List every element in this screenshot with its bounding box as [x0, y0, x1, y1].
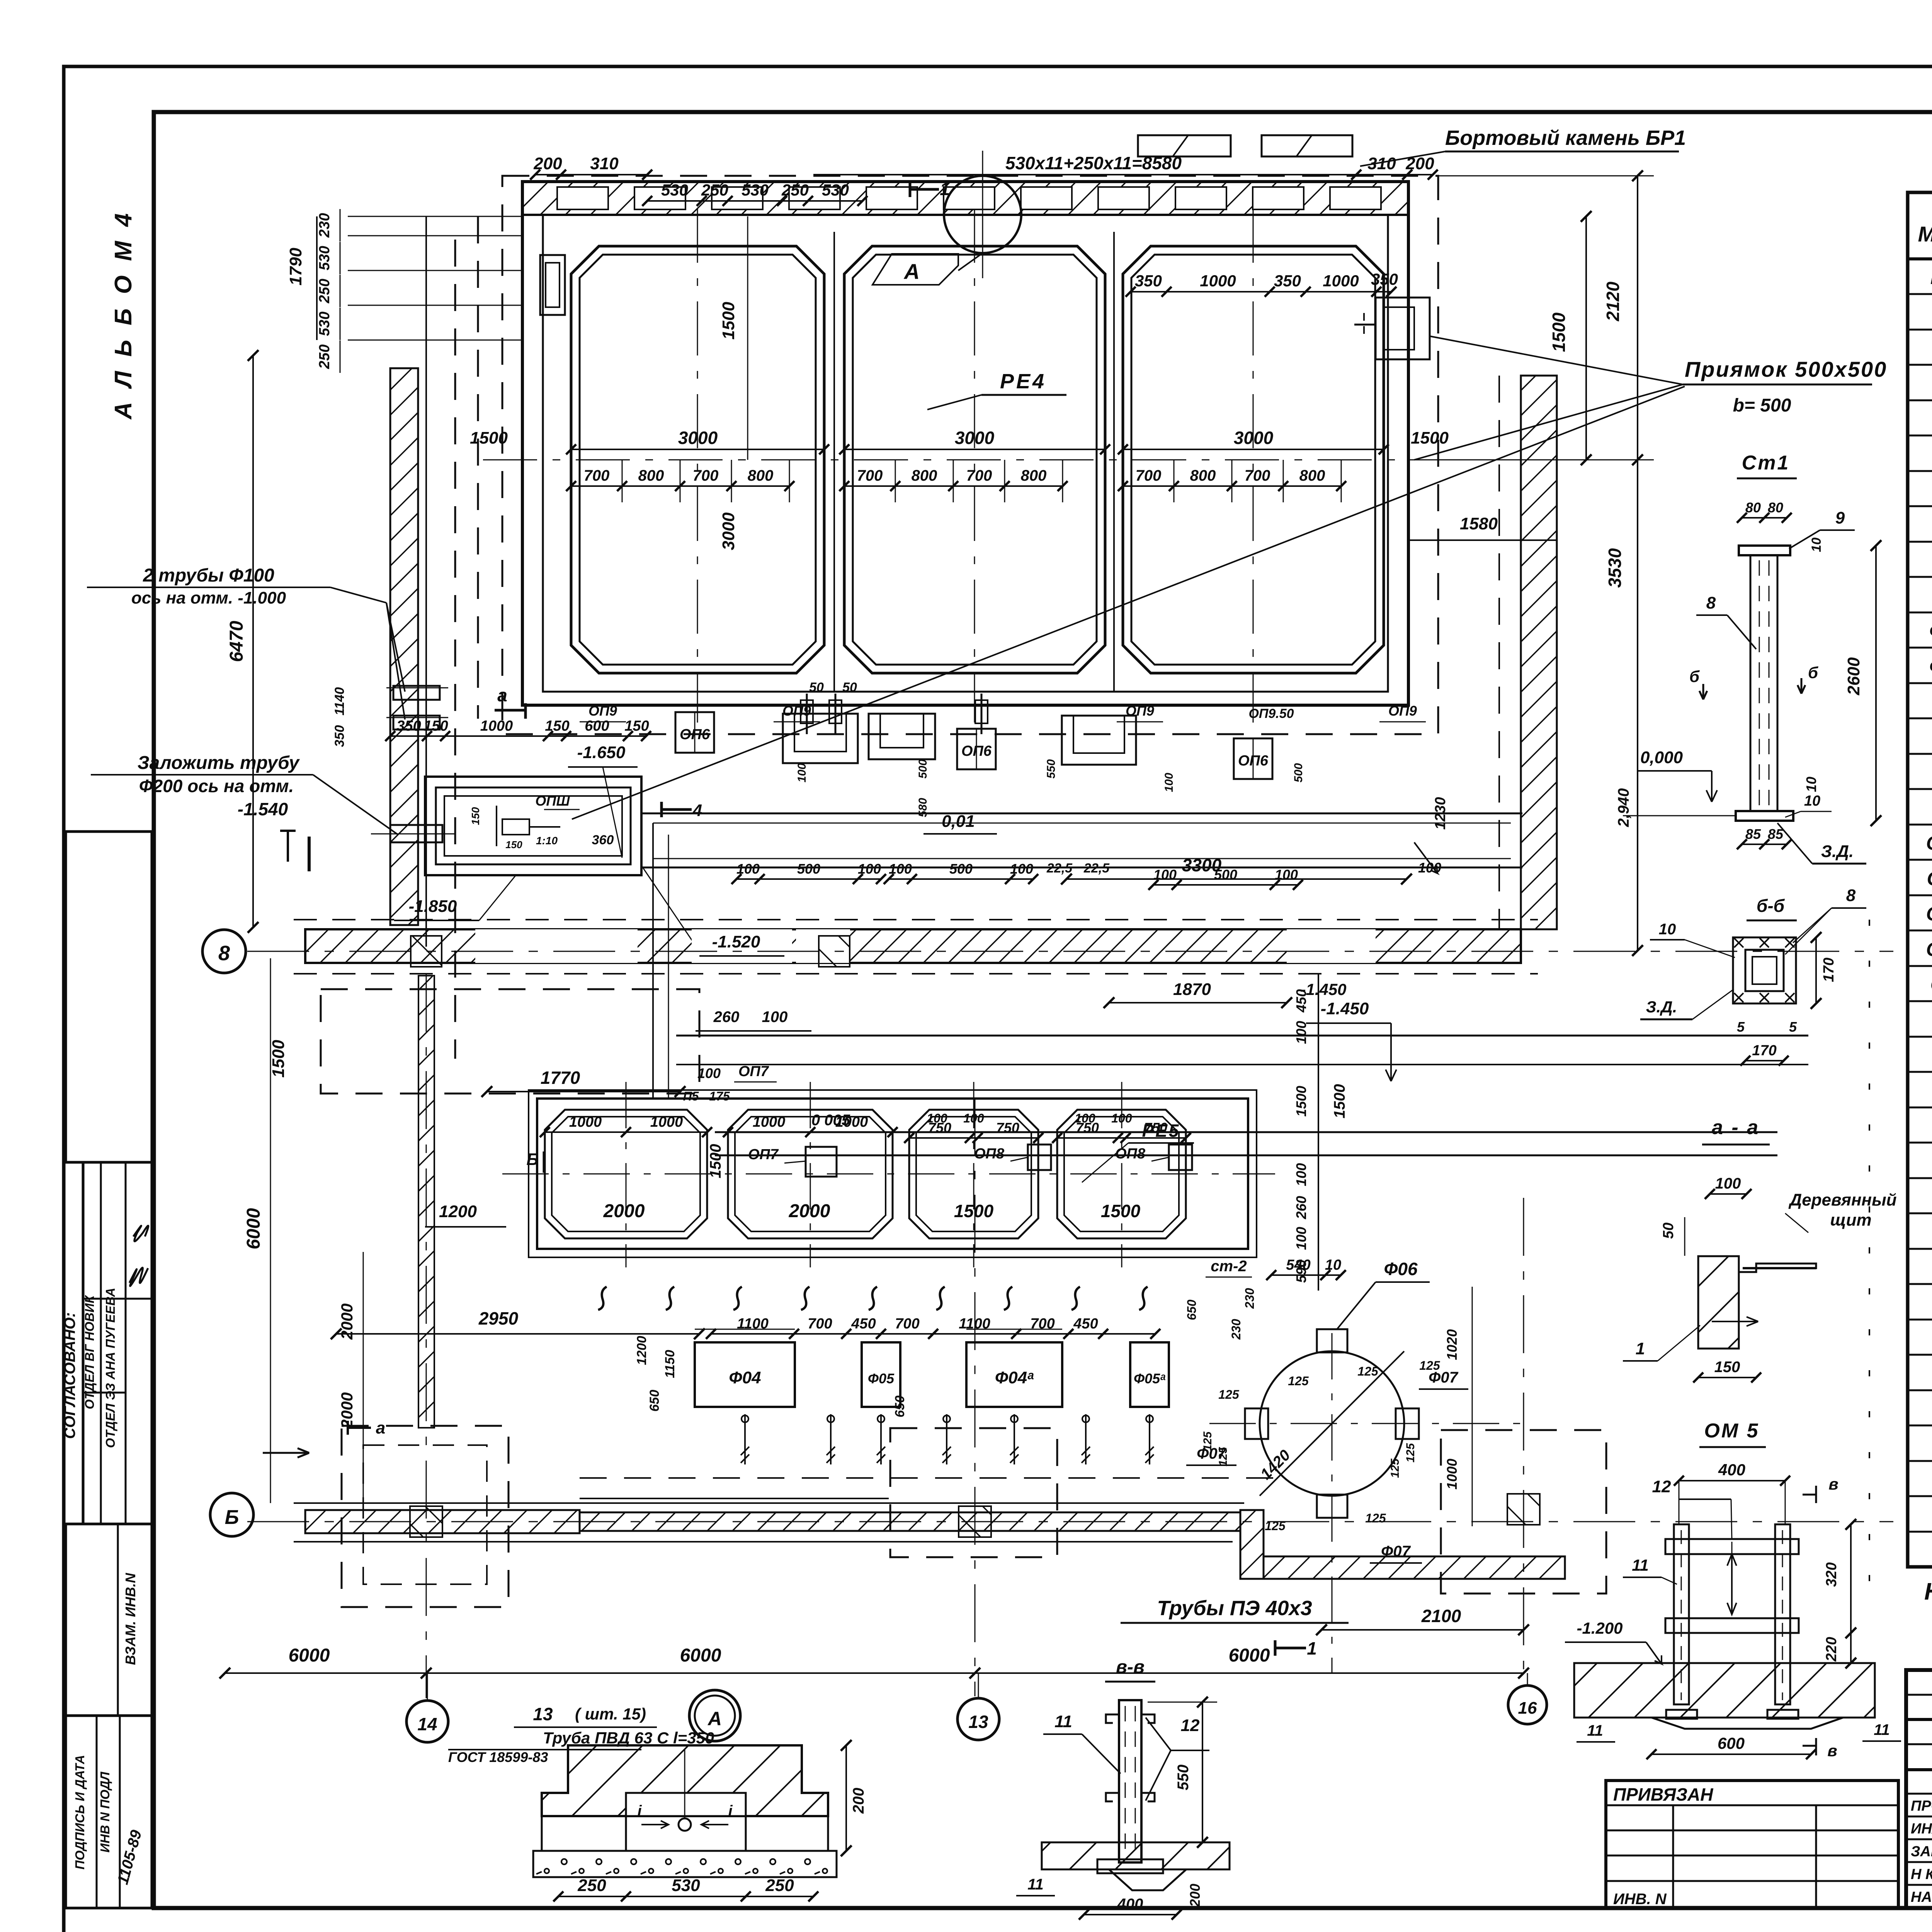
cell partition centrelines — [833, 232, 835, 692]
a-a body — [1698, 1256, 1816, 1272]
lower dim chain 2950 — [336, 1333, 699, 1335]
svg-text:ОМ 5: ОМ 5 — [1704, 1420, 1759, 1442]
svg-text:1000: 1000 — [1323, 272, 1359, 290]
post dim 550 — [1202, 1702, 1203, 1842]
svg-text:100: 100 — [736, 861, 760, 877]
svg-text:550: 550 — [1045, 759, 1058, 779]
St1 b section arrows — [1699, 684, 1707, 699]
svg-text:11: 11 — [1054, 1712, 1072, 1731]
svg-text:1500: 1500 — [719, 302, 738, 340]
svg-text:б-б: б-б — [1757, 896, 1785, 916]
svg-text:100: 100 — [1153, 867, 1177, 883]
svg-text:-1.540: -1.540 — [238, 799, 288, 819]
OM5 rack posts — [1674, 1524, 1689, 1704]
section mark a lower — [348, 1421, 371, 1435]
svg-text:ОП8: ОП8 — [974, 1146, 1005, 1162]
svg-text:150: 150 — [469, 807, 481, 825]
svg-text:1000: 1000 — [1200, 272, 1236, 290]
St1 dims 80 80 — [1742, 517, 1787, 519]
svg-text:1500: 1500 — [1293, 1086, 1309, 1117]
svg-text:ИНЖ IК: ИНЖ IК — [1911, 1821, 1932, 1837]
svg-text:Ф04ᵃ: Ф04ᵃ — [1929, 620, 1932, 642]
axis circle 13 — [957, 1698, 999, 1740]
svg-text:ОТДЕЛ ЭЗ АНА ПУГЕЕВА: ОТДЕЛ ЭЗ АНА ПУГЕЕВА — [103, 1288, 117, 1448]
svg-text:ПРИВЯЗАН: ПРИВЯЗАН — [1613, 1784, 1713, 1804]
channel from pit to right — [641, 813, 1522, 815]
svg-text:600: 600 — [1718, 1734, 1745, 1752]
svg-text:250: 250 — [316, 279, 333, 303]
dims below pits — [736, 878, 881, 880]
dim 2100 — [1321, 1629, 1524, 1631]
svg-text:700: 700 — [1245, 467, 1270, 484]
svg-text:1000: 1000 — [753, 1114, 786, 1130]
OM5 base plates — [1666, 1710, 1697, 1719]
vertical axes dash-dot — [426, 974, 427, 1698]
svg-text:2000: 2000 — [338, 1392, 356, 1429]
axis 8 centerline — [247, 951, 1893, 952]
svg-text:СОГЛАСОВАНО:: СОГЛАСОВАНО: — [61, 1312, 78, 1439]
svg-text:800: 800 — [748, 467, 774, 484]
svg-text:80: 80 — [1768, 500, 1783, 515]
svg-text:6470: 6470 — [226, 621, 247, 662]
attachment stamp table — [1606, 1781, 1898, 1908]
OM5 dims 600 — [1651, 1753, 1811, 1755]
svg-text:ОТДЕЛ ВГ НОВИК: ОТДЕЛ ВГ НОВИК — [82, 1294, 97, 1409]
svg-text:ОП7: ОП7 — [738, 1063, 769, 1080]
ОП6 support boxes row — [675, 712, 714, 753]
axis 8 dashed borders — [294, 919, 1538, 920]
svg-text:3000: 3000 — [719, 512, 738, 550]
svg-text:100: 100 — [796, 763, 808, 782]
svg-text:100: 100 — [1293, 1021, 1309, 1044]
right pit 500x500 — [1376, 298, 1430, 359]
svg-text:4: 4 — [692, 801, 702, 820]
svg-text:800: 800 — [1299, 467, 1325, 484]
svg-text:ОП6: ОП6 — [1238, 753, 1269, 769]
svg-text:-1.200: -1.200 — [1577, 1619, 1622, 1637]
svg-text:100: 100 — [927, 1111, 947, 1125]
dashed line under foundations — [580, 1477, 1279, 1479]
bottom 6000 dims row — [225, 1672, 1524, 1674]
channel 2 lines — [676, 1035, 1808, 1037]
section mark 1 top — [909, 182, 912, 197]
lower cells top dims — [545, 1131, 707, 1133]
svg-text:10: 10 — [1809, 537, 1824, 552]
svg-text:22,5: 22,5 — [1083, 861, 1110, 876]
lower cell 3 — [909, 1110, 1038, 1238]
lower tank outer walls — [537, 1099, 1248, 1249]
axis circle A double — [689, 1690, 740, 1741]
svg-text:1140: 1140 — [332, 687, 347, 715]
svg-text:350: 350 — [1135, 272, 1162, 290]
svg-text:1: 1 — [1636, 1339, 1645, 1358]
right side dim 3530 — [1637, 460, 1638, 951]
svg-text:230: 230 — [1243, 1288, 1257, 1309]
svg-text:1: 1 — [1307, 1638, 1317, 1658]
svg-text:ст-2: ст-2 — [1211, 1258, 1247, 1275]
dim row above pit box — [390, 735, 646, 737]
section mark 1 bottom — [1274, 1640, 1277, 1656]
svg-text:2000: 2000 — [603, 1201, 645, 1221]
top dimension row 1 — [535, 174, 647, 175]
svg-text:Приямок 500х500: Приямок 500х500 — [1685, 357, 1887, 381]
svg-text:200: 200 — [1187, 1884, 1203, 1907]
svg-text:3000: 3000 — [955, 428, 995, 448]
svg-text:Ф06: Ф06 — [1384, 1259, 1417, 1279]
svg-text:б: б — [1689, 667, 1700, 685]
dims 540 10 — [1271, 1274, 1341, 1276]
svg-text:450: 450 — [1293, 989, 1309, 1013]
svg-text:3530: 3530 — [1605, 548, 1625, 588]
svg-text:Ф200 ось на отм.: Ф200 ось на отм. — [139, 776, 294, 796]
right wall hatched strip — [1521, 376, 1557, 929]
svg-text:А Л Ь Б О М 4: А Л Ь Б О М 4 — [110, 209, 137, 420]
svg-text:НАЧ ОТД: НАЧ ОТД — [1911, 1889, 1932, 1905]
svg-text:530: 530 — [316, 311, 333, 336]
left stamp strip boxes — [66, 832, 152, 1162]
svg-text:1500: 1500 — [954, 1201, 994, 1221]
svg-text:А: А — [707, 1708, 722, 1730]
svg-text:П1-5: П1-5 — [1930, 267, 1932, 288]
lower cells centerlines — [502, 1173, 1275, 1175]
svg-text:0,000: 0,000 — [1640, 748, 1683, 767]
svg-text:500: 500 — [797, 861, 820, 877]
svg-text:в: в — [1828, 1475, 1838, 1493]
svg-text:5: 5 — [1789, 1019, 1797, 1035]
svg-text:2000: 2000 — [789, 1201, 830, 1221]
svg-text:9: 9 — [1835, 509, 1845, 527]
svg-text:1770: 1770 — [541, 1068, 580, 1088]
svg-text:Ф05ᵃ: Ф05ᵃ — [1134, 1371, 1165, 1386]
svg-text:ЗАВ ГРУП: ЗАВ ГРУП — [1911, 1844, 1932, 1860]
detail A gravel bed — [533, 1851, 837, 1877]
svg-text:650: 650 — [647, 1390, 662, 1412]
round tank — [1260, 1351, 1404, 1496]
b-b dim 170 right — [1815, 937, 1817, 1003]
svg-text:250: 250 — [765, 1876, 794, 1895]
axis 8 circle — [202, 930, 246, 973]
svg-text:80: 80 — [1745, 500, 1761, 515]
svg-text:6000: 6000 — [289, 1645, 330, 1666]
svg-text:ГОСТ 18599-83: ГОСТ 18599-83 — [448, 1749, 548, 1765]
svg-text:ПРОВЕР: ПРОВЕР — [1911, 1798, 1932, 1814]
svg-text:350: 350 — [1274, 272, 1301, 290]
svg-text:ОП9: ОП9 — [1126, 703, 1154, 719]
svg-text:Труба ПВД 63 С l=350: Труба ПВД 63 С l=350 — [543, 1729, 714, 1747]
plan outer dashed outline — [502, 176, 1438, 734]
svg-text:150: 150 — [423, 718, 448, 734]
svg-text:8: 8 — [1706, 594, 1716, 612]
svg-text:230: 230 — [1229, 1319, 1243, 1340]
axis markers on axis 8 — [411, 936, 442, 967]
svg-text:12: 12 — [1181, 1716, 1200, 1735]
svg-text:100: 100 — [1010, 861, 1033, 877]
svg-text:400: 400 — [1117, 1896, 1143, 1913]
axis Б centerline — [247, 1521, 1893, 1522]
svg-text:ОП9.50: ОП9.50 — [1248, 706, 1294, 721]
svg-text:ОП6: ОП6 — [680, 726, 710, 743]
svg-text:100: 100 — [1293, 1163, 1309, 1186]
svg-text:13: 13 — [968, 1712, 988, 1732]
svg-text:700: 700 — [966, 467, 992, 484]
svg-text:100: 100 — [1715, 1175, 1741, 1192]
tank cell 2 — [844, 246, 1105, 673]
svg-text:540: 540 — [1286, 1257, 1310, 1273]
svg-text:100: 100 — [1418, 860, 1441, 876]
svg-text:1870: 1870 — [1173, 980, 1211, 999]
svg-text:11: 11 — [1632, 1556, 1649, 1574]
pit box internals — [496, 806, 497, 846]
left wall hatched strip — [390, 368, 418, 925]
svg-text:1500: 1500 — [470, 429, 508, 447]
svg-text:530: 530 — [672, 1876, 700, 1895]
detail A dims — [558, 1896, 813, 1897]
a-a dim 150 and label 1 — [1698, 1377, 1756, 1378]
svg-text:ОП6: ОП6 — [961, 743, 992, 759]
svg-text:800: 800 — [1021, 467, 1047, 484]
svg-text:500: 500 — [1292, 763, 1305, 782]
svg-text:700: 700 — [895, 1316, 919, 1332]
svg-text:700: 700 — [693, 467, 719, 484]
svg-text:250: 250 — [781, 181, 809, 199]
svg-text:650: 650 — [1185, 1299, 1199, 1320]
svg-text:ВЗАМ. ИНВ.N: ВЗАМ. ИНВ.N — [122, 1573, 138, 1665]
anchor hooks below lower block — [598, 1287, 607, 1310]
svg-text:530: 530 — [316, 246, 333, 270]
svg-text:11: 11 — [1027, 1876, 1044, 1893]
svg-text:6000: 6000 — [1229, 1645, 1270, 1666]
left pit 500x500 — [540, 255, 565, 315]
St1 dims 85 85 — [1742, 844, 1787, 845]
svg-text:1000: 1000 — [480, 718, 513, 734]
svg-text:580: 580 — [917, 798, 929, 817]
left vertical dims 6000 2000 — [270, 974, 271, 1503]
top right cell dims 350-1000 — [1131, 291, 1391, 293]
svg-text:550: 550 — [1175, 1765, 1192, 1791]
svg-text:100: 100 — [889, 861, 912, 877]
svg-text:100: 100 — [858, 861, 881, 877]
svg-text:250: 250 — [577, 1876, 606, 1895]
tank cell 3 — [1123, 246, 1384, 673]
svg-text:10: 10 — [1803, 777, 1819, 792]
svg-text:250: 250 — [701, 181, 728, 199]
svg-text:800: 800 — [638, 467, 664, 484]
svg-text:8: 8 — [1846, 886, 1856, 905]
svg-text:500: 500 — [917, 759, 929, 779]
svg-text:10: 10 — [1804, 793, 1820, 809]
spec table grid — [1908, 192, 1932, 1567]
svg-text:100: 100 — [1111, 1111, 1132, 1125]
right vertical dim chain — [1318, 974, 1319, 1291]
svg-text:ОП9: ОП9 — [588, 703, 617, 719]
svg-text:Заложить трубу: Заложить трубу — [138, 753, 300, 773]
foundation boxes — [695, 1342, 795, 1407]
svg-text:5: 5 — [1737, 1019, 1745, 1035]
svg-text:Трубы ПЭ 40х3: Трубы ПЭ 40х3 — [1157, 1597, 1312, 1620]
svg-text:800: 800 — [1190, 467, 1216, 484]
svg-text:ось на отм. -1.000: ось на отм. -1.000 — [131, 588, 286, 607]
svg-text:1000: 1000 — [1444, 1459, 1460, 1490]
svg-text:220: 220 — [1823, 1637, 1840, 1662]
svg-text:1500: 1500 — [1411, 429, 1449, 447]
post ground — [1042, 1842, 1230, 1869]
svg-text:6000: 6000 — [243, 1208, 264, 1249]
dims 3000 row — [571, 449, 824, 450]
svg-text:170: 170 — [1752, 1043, 1776, 1059]
svg-text:450: 450 — [851, 1316, 876, 1332]
svg-text:-1.520: -1.520 — [712, 932, 760, 951]
kerb stones detail plan top right — [1138, 135, 1231, 156]
svg-text:530: 530 — [661, 181, 688, 199]
top wall hatched band — [522, 182, 1408, 215]
svg-text:125: 125 — [1357, 1364, 1379, 1378]
svg-text:500: 500 — [949, 861, 973, 877]
b-b outer square — [1733, 937, 1796, 1003]
svg-text:Деревянный: Деревянный — [1788, 1190, 1896, 1209]
svg-text:ОП8: ОП8 — [1115, 1146, 1146, 1162]
svg-text:в: в — [1827, 1742, 1837, 1760]
svg-text:2000: 2000 — [338, 1303, 356, 1340]
svg-text:360: 360 — [592, 833, 614, 847]
dim 1770 — [487, 1091, 680, 1092]
svg-text:8: 8 — [218, 942, 230, 965]
svg-text:Марка: Марка — [1918, 222, 1932, 246]
svg-text:100: 100 — [1293, 1227, 1309, 1250]
svg-text:13: 13 — [533, 1704, 553, 1724]
svg-text:1500: 1500 — [1331, 1084, 1348, 1119]
axis Б wall band — [305, 1510, 580, 1533]
svg-text:РЕ4: РЕ4 — [1000, 370, 1046, 393]
OM5 shelves — [1665, 1539, 1799, 1554]
anchor rods below foundations — [744, 1414, 746, 1464]
svg-text:-1.450: -1.450 — [1321, 999, 1369, 1018]
axis circle 16 — [1508, 1685, 1547, 1724]
svg-text:2,940: 2,940 — [1615, 788, 1632, 827]
svg-text:700: 700 — [857, 467, 883, 484]
svg-text:1: 1 — [940, 179, 950, 199]
svg-text:( шт. 15): ( шт. 15) — [575, 1705, 646, 1723]
svg-text:530: 530 — [742, 181, 769, 199]
section callout circle A — [944, 176, 1021, 253]
St1 column — [1739, 546, 1790, 555]
svg-text:-1.850: -1.850 — [409, 897, 457, 916]
svg-text:б: б — [1808, 663, 1818, 682]
svg-text:ИНВ N ПОДЛ: ИНВ N ПОДЛ — [98, 1771, 112, 1852]
svg-text:Ф04: Ф04 — [729, 1368, 761, 1387]
svg-text:250: 250 — [316, 344, 333, 369]
svg-text:Настоящий лист см совместн: Настоящий лист см совместно с листом 29 … — [1924, 1578, 1932, 1605]
dim 3300 and 100 — [1066, 878, 1406, 880]
svg-text:230: 230 — [316, 213, 333, 238]
svg-text:2100: 2100 — [1421, 1606, 1461, 1626]
svg-text:350: 350 — [332, 725, 347, 747]
detail A pipe circle — [679, 1818, 691, 1831]
svg-text:Ф05ᵃ: Ф05ᵃ — [1929, 656, 1932, 677]
axis circle 14 — [406, 1701, 448, 1742]
lower dashed box left — [321, 989, 699, 1094]
svg-text:1000: 1000 — [650, 1114, 683, 1130]
tee symbols — [280, 830, 296, 832]
svg-text:3000: 3000 — [1234, 428, 1274, 448]
dims 1870 — [1109, 1002, 1287, 1003]
svg-text:2120: 2120 — [1603, 281, 1623, 321]
right side dims 1500 2120 — [1585, 216, 1587, 460]
anchor bolts symbols — [806, 694, 808, 734]
svg-text:ОП10: ОП10 — [1926, 832, 1932, 854]
svg-text:в-в: в-в — [1116, 1657, 1145, 1677]
svg-text:125: 125 — [1365, 1511, 1386, 1525]
svg-text:310: 310 — [590, 154, 619, 173]
svg-text:260: 260 — [1293, 1196, 1309, 1219]
svg-text:1150: 1150 — [663, 1350, 677, 1378]
pit box ОПШ plan — [425, 777, 641, 875]
svg-text:100: 100 — [762, 1009, 788, 1026]
dashed box lower left — [342, 1426, 509, 1607]
section mark a upper — [495, 709, 526, 712]
svg-text:150: 150 — [505, 839, 522, 850]
svg-text:щит: щит — [1830, 1211, 1871, 1230]
svg-text:1230: 1230 — [1432, 797, 1449, 830]
svg-text:1000: 1000 — [835, 1114, 868, 1130]
a-a arrow — [1712, 1317, 1758, 1326]
svg-text:1:10: 1:10 — [536, 835, 558, 847]
svg-text:1500: 1500 — [1101, 1201, 1141, 1221]
svg-text:1500: 1500 — [1549, 312, 1569, 352]
OM5 dims 320 220 — [1850, 1524, 1852, 1663]
stamp signatures — [129, 1268, 148, 1286]
svg-text:10: 10 — [1325, 1257, 1341, 1273]
overall left dim 6470 — [252, 355, 254, 927]
svg-text:11: 11 — [1874, 1721, 1890, 1738]
svg-text:Ф07: Ф07 — [1197, 1445, 1226, 1462]
title block rows — [1906, 1718, 1932, 1721]
svg-text:170: 170 — [1821, 957, 1837, 982]
post hooks — [1106, 1714, 1119, 1723]
b-b crosses — [1734, 938, 1743, 947]
lower cell 2 — [728, 1110, 893, 1238]
svg-text:350: 350 — [396, 718, 421, 734]
foundation top ticks — [695, 1329, 795, 1330]
svg-text:700: 700 — [584, 467, 610, 484]
axis markers on axis Б — [410, 1506, 442, 1537]
svg-text:11: 11 — [1587, 1722, 1603, 1739]
svg-text:-1.650: -1.650 — [577, 743, 626, 762]
svg-text:1500: 1500 — [707, 1144, 724, 1179]
a-a dim 100 — [1710, 1193, 1747, 1195]
svg-text:З.Д.: З.Д. — [1821, 842, 1854, 861]
OM5 ground band — [1574, 1663, 1875, 1718]
svg-text:150: 150 — [545, 718, 569, 734]
svg-text:1500: 1500 — [269, 1040, 288, 1078]
svg-text:800: 800 — [912, 467, 937, 484]
axis 8 wall band — [305, 929, 1521, 963]
svg-text:200: 200 — [850, 1788, 867, 1814]
svg-text:450: 450 — [1073, 1316, 1098, 1332]
svg-text:22,5: 22,5 — [1046, 861, 1073, 876]
svg-text:700: 700 — [808, 1316, 832, 1332]
svg-text:ИНВ. N: ИНВ. N — [1613, 1891, 1667, 1908]
lower cell 1 — [545, 1110, 707, 1238]
OM5 dim 400 — [1679, 1480, 1785, 1481]
section mark 4 — [660, 802, 663, 817]
svg-text:b= 500: b= 500 — [1733, 395, 1791, 416]
dims 700-800 row — [571, 485, 789, 487]
svg-text:ОП13: ОП13 — [1926, 939, 1932, 960]
post body — [1119, 1700, 1141, 1862]
svg-text:Ст1: Ст1 — [1742, 452, 1790, 474]
small pits below tanks — [783, 714, 858, 763]
svg-text:РЕ5: РЕ5 — [1142, 1121, 1180, 1141]
